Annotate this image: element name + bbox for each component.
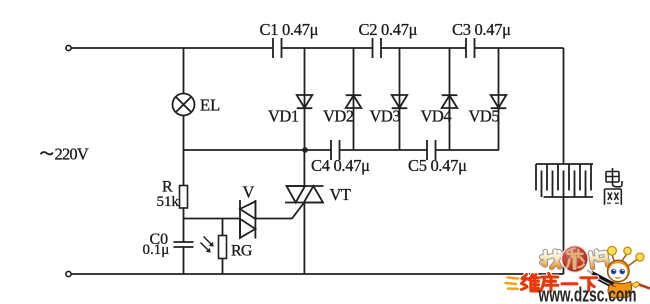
wire diac to gate [255, 203, 303, 219]
svg-text:VD1: VD1 [268, 107, 299, 126]
triac VT [285, 186, 324, 203]
wire VD5 branch [498, 48, 500, 150]
wire VT upper [303, 150, 305, 186]
svg-text:EL: EL [200, 96, 220, 115]
svg-text:VT: VT [330, 185, 351, 204]
svg-text:RG: RG [231, 243, 253, 260]
svg-text:C5 0.47μ: C5 0.47μ [408, 156, 467, 175]
resistor R [180, 186, 188, 209]
wire RG branch [222, 219, 224, 275]
photoresistor RG [201, 236, 227, 259]
terminal bottom-left [66, 271, 71, 276]
wire bottom rail [72, 273, 564, 275]
diode VD5 [491, 95, 507, 108]
wire VT lower [303, 203, 305, 275]
wire gate rail [184, 218, 241, 220]
wire VD1 branch [304, 48, 306, 150]
label dian (electricity) [606, 168, 622, 187]
diode VD4 [442, 95, 458, 108]
svg-text:51k: 51k [157, 194, 180, 210]
terminal top-left [66, 45, 71, 50]
capacitor C3 [466, 38, 475, 58]
watermark mascot [587, 246, 650, 297]
watermark speed lines [506, 278, 519, 290]
svg-text:R: R [162, 179, 173, 196]
wire VD2 branch [353, 48, 355, 150]
watermark weikuyixia red text [522, 274, 597, 292]
svg-text:V: V [243, 183, 255, 202]
diode VD3 [392, 95, 408, 108]
wire VD4 branch [449, 48, 451, 150]
wire middle rail [184, 149, 500, 151]
power grid comb symbol [536, 164, 593, 197]
svg-text:VD2: VD2 [323, 107, 354, 126]
junction node [302, 147, 308, 153]
watermark logo xin (core) red circle [561, 245, 589, 273]
svg-text:C4 0.47μ: C4 0.47μ [311, 156, 370, 175]
diode VD2 [346, 95, 362, 108]
svg-text:C2 0.47μ: C2 0.47μ [359, 20, 418, 39]
capacitor C2 [373, 38, 382, 58]
wire left branch vertical [183, 48, 185, 274]
wire top rail [72, 47, 564, 49]
svg-text:0.1μ: 0.1μ [143, 242, 170, 258]
diac V [240, 200, 255, 239]
label wang (net) [605, 189, 622, 205]
capacitor C0 [174, 242, 194, 247]
capacitor C4 [331, 140, 340, 160]
diode VD1 [297, 95, 313, 108]
capacitor C5 [427, 140, 436, 160]
capacitor C1 [273, 38, 282, 58]
svg-text:VD3: VD3 [370, 107, 401, 126]
svg-text:VD5: VD5 [469, 107, 500, 126]
watermark logo pian (chip) char [590, 250, 607, 268]
svg-text:C1 0.47μ: C1 0.47μ [260, 20, 319, 39]
svg-text:C3 0.47μ: C3 0.47μ [452, 20, 511, 39]
svg-text:VD4: VD4 [421, 107, 452, 126]
watermark logo zhao (find) char [542, 251, 561, 268]
svg-text:220V: 220V [55, 145, 89, 164]
lamp EL [173, 94, 195, 116]
label ~220V [41, 152, 54, 154]
wire right vertical [563, 48, 565, 274]
svg-text:www.dzsc.com: www.dzsc.com [538, 285, 637, 304]
wire VD3 branch [399, 48, 401, 150]
